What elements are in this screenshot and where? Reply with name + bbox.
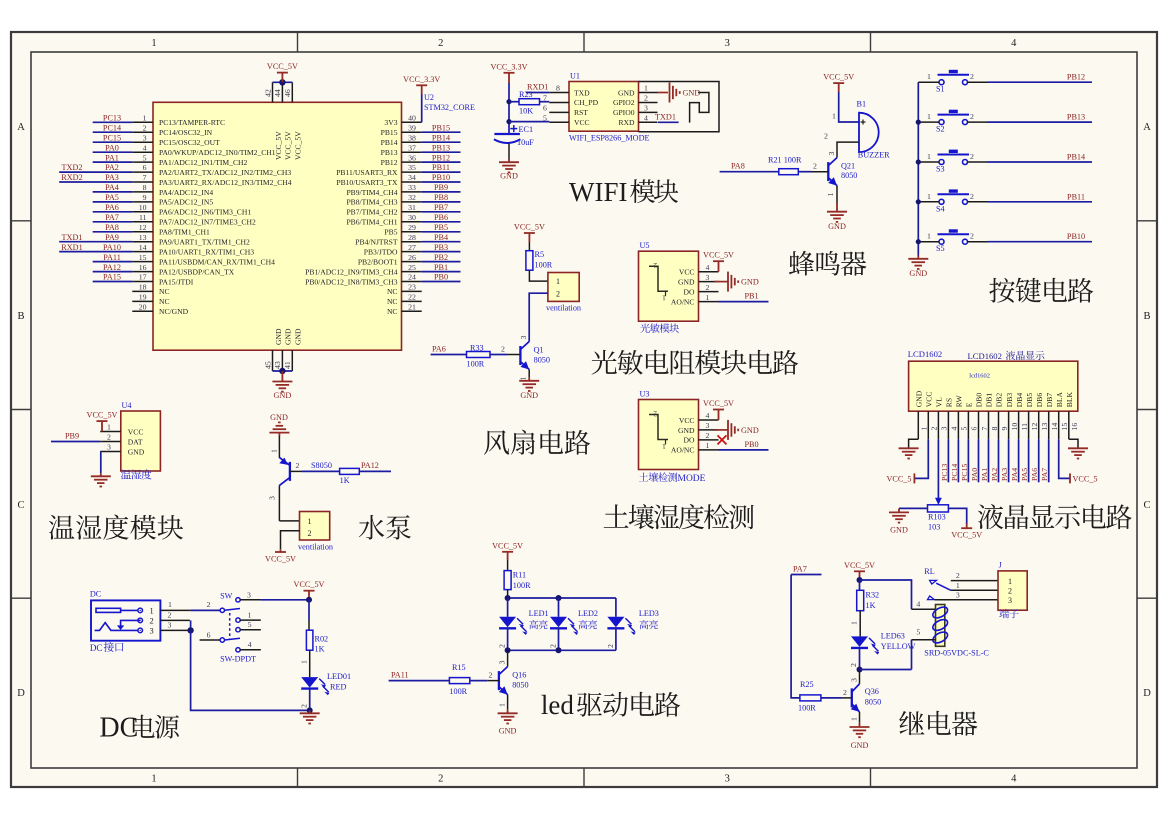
svg-text:PA7: PA7 <box>105 213 119 222</box>
svg-text:PC14: PC14 <box>103 123 121 132</box>
svg-text:DC: DC <box>99 713 138 744</box>
svg-text:2: 2 <box>653 410 657 419</box>
S1 pin wires <box>918 81 939 83</box>
wire net PC15 <box>93 141 133 143</box>
U5 pin 1 stub <box>699 301 719 303</box>
wire LED63 to junction <box>859 648 861 670</box>
title 液晶显示电路 <box>978 504 1132 529</box>
ground below Q21 <box>827 212 847 222</box>
svg-text:10uF: 10uF <box>517 138 534 147</box>
power port VCC_5V at U5 pin4 <box>718 261 720 272</box>
svg-text:100R: 100R <box>467 360 485 369</box>
U2 pin 35 stub <box>402 171 422 173</box>
U2 pin 37 stub <box>402 151 422 153</box>
LED63 <box>851 636 868 647</box>
svg-text:GND: GND <box>741 426 759 435</box>
svg-text:VCC_3.3V: VCC_3.3V <box>403 75 440 84</box>
svg-text:1: 1 <box>498 703 507 707</box>
wire net PB7 <box>422 211 461 213</box>
U2 pin 29 stub <box>402 231 422 233</box>
svg-text:RW: RW <box>955 395 964 408</box>
svg-text:3: 3 <box>725 38 730 49</box>
U1 pin 5 stub <box>549 121 569 123</box>
wire R02 to LED01 <box>309 650 311 677</box>
switch S4 <box>938 194 970 204</box>
U5 internal pin names <box>678 268 695 297</box>
svg-text:1: 1 <box>662 442 666 451</box>
svg-text:PA6/ADC12_IN6/TIM3_CH1: PA6/ADC12_IN6/TIM3_CH1 <box>159 208 251 217</box>
svg-text:3: 3 <box>247 591 251 600</box>
svg-text:3V3: 3V3 <box>384 118 397 127</box>
relay contact common lever <box>936 583 951 590</box>
U2 pin 38 stub <box>402 141 422 143</box>
svg-text:1: 1 <box>270 449 279 453</box>
svg-text:8: 8 <box>990 427 999 431</box>
svg-text:BLA: BLA <box>1055 391 1064 407</box>
U2 pin 16 stub <box>132 271 153 273</box>
junction S3 <box>916 159 921 164</box>
svg-text:100R: 100R <box>513 581 531 590</box>
svg-text:PA6: PA6 <box>1030 468 1039 481</box>
junction VCC DC <box>306 597 312 603</box>
U2 pin 7 stub <box>132 181 153 183</box>
U1 pin 8 stub <box>549 92 569 94</box>
S4 pin wires <box>918 201 939 203</box>
svg-text:GND: GND <box>915 390 924 407</box>
svg-text:8: 8 <box>143 183 147 192</box>
title 继电器 <box>899 711 977 736</box>
svg-text:PB11: PB11 <box>432 163 450 172</box>
ground below Q16 <box>498 713 518 723</box>
svg-text:EC1: EC1 <box>519 125 534 134</box>
svg-text:PC15: PC15 <box>960 464 969 481</box>
wire key common rail <box>917 82 919 255</box>
U5 photoresistor glyph <box>649 266 668 291</box>
svg-text:S1: S1 <box>936 85 945 94</box>
svg-text:PB9: PB9 <box>434 183 448 192</box>
svg-text:R32: R32 <box>866 591 880 600</box>
svg-text:34: 34 <box>408 173 416 182</box>
wire net PB11 <box>422 171 461 173</box>
svg-text:18: 18 <box>139 283 147 292</box>
svg-text:PA8: PA8 <box>731 162 745 171</box>
svg-text:2: 2 <box>1008 587 1012 596</box>
svg-text:GND: GND <box>499 727 517 736</box>
svg-text:PB9/TIM4_CH4: PB9/TIM4_CH4 <box>346 188 397 197</box>
svg-text:LCD1602: LCD1602 <box>968 351 1002 361</box>
wire net PB4 <box>422 241 461 243</box>
svg-text:26: 26 <box>408 253 416 262</box>
svg-text:PB6: PB6 <box>434 213 448 222</box>
wire rail to Q16 collector <box>507 650 509 666</box>
svg-text:17: 17 <box>139 273 147 282</box>
junction led2 bottom <box>556 647 562 653</box>
svg-text:DB6: DB6 <box>1035 393 1044 408</box>
wire S8050 base to resistor 1K <box>290 470 302 472</box>
svg-text:30: 30 <box>408 213 416 222</box>
svg-text:1: 1 <box>308 517 312 526</box>
svg-text:PA0/WKUP/ADC12_IN0/TIM2_CH1: PA0/WKUP/ADC12_IN0/TIM2_CH1 <box>159 148 276 157</box>
resistor R11 <box>504 571 511 590</box>
wire net PB12 <box>988 81 1093 83</box>
U2 pin 27 stub <box>402 251 422 253</box>
svg-text:NC: NC <box>387 297 398 306</box>
svg-text:2: 2 <box>970 112 974 121</box>
svg-text:1: 1 <box>151 774 156 785</box>
junction rail VCC pin <box>506 119 511 124</box>
svg-text:2: 2 <box>970 192 974 201</box>
svg-text:PB0: PB0 <box>745 440 759 449</box>
svg-text:1: 1 <box>826 193 835 197</box>
wire net PA7 <box>1048 439 1050 482</box>
svg-text:GND: GND <box>270 413 288 422</box>
svg-text:2: 2 <box>501 345 505 354</box>
svg-text:R02: R02 <box>315 635 329 644</box>
S5 pin wires <box>918 241 939 243</box>
U3 pin 1 stub <box>699 449 719 451</box>
svg-text:D: D <box>17 688 25 699</box>
resistor R21 <box>779 169 799 175</box>
wire R5 to ventilation pin1 <box>529 270 548 281</box>
wire net PB13 <box>988 121 1093 123</box>
svg-text:3: 3 <box>827 152 836 156</box>
U2 pin 40 3V3 wire to VCC_3.3V <box>421 94 423 122</box>
svg-text:A: A <box>1143 122 1151 133</box>
svg-text:NC/GND: NC/GND <box>159 307 189 316</box>
svg-text:PB13: PB13 <box>432 143 450 152</box>
svg-text:1: 1 <box>832 112 836 121</box>
wire top power bus <box>273 81 293 83</box>
wire R11 to led rail <box>507 590 509 598</box>
wire Q36 emitter to GND <box>859 712 861 723</box>
wire net PB0 at U3 pin1 <box>719 449 769 451</box>
svg-text:GND: GND <box>294 328 303 345</box>
svg-text:DAT: DAT <box>128 437 143 446</box>
svg-text:VCC_5V: VCC_5V <box>267 62 298 71</box>
svg-text:AO/NC: AO/NC <box>671 297 695 306</box>
junction led1 bottom <box>505 647 511 653</box>
svg-text:PA5/ADC12_IN5: PA5/ADC12_IN5 <box>159 198 213 207</box>
wire net PC14 <box>93 131 133 133</box>
ground at U5 pin3 <box>728 272 738 292</box>
svg-text:GND: GND <box>618 88 635 97</box>
svg-text:GND: GND <box>828 222 846 231</box>
svg-text:38: 38 <box>408 133 416 142</box>
svg-text:VCC: VCC <box>128 427 144 436</box>
svg-text:14: 14 <box>1050 423 1059 431</box>
svg-text:VCC_5V: VCC_5V <box>294 131 303 160</box>
svg-text:10K: 10K <box>519 107 533 116</box>
svg-text:3: 3 <box>706 421 710 430</box>
wire net PA5 <box>93 201 133 203</box>
title 按键电路 <box>989 278 1093 303</box>
svg-text:TXD1: TXD1 <box>655 112 676 121</box>
svg-text:MODE: MODE <box>678 474 706 484</box>
wire Q21 emitter to GND <box>836 186 838 203</box>
svg-text:2: 2 <box>813 162 817 171</box>
svg-text:42: 42 <box>263 89 272 97</box>
svg-text:PA8/TIM1_CH1: PA8/TIM1_CH1 <box>159 228 210 237</box>
wire LED1 anode <box>507 598 509 617</box>
op-amp U3 body <box>639 400 699 470</box>
svg-text:11: 11 <box>139 213 147 222</box>
LED01 <box>301 677 318 688</box>
svg-text:VCC: VCC <box>679 416 695 425</box>
wire net PA10 <box>59 251 132 253</box>
U2 pin 12 stub <box>132 231 153 233</box>
svg-text:C: C <box>1143 500 1150 511</box>
wire LED2 cathode <box>558 628 560 650</box>
wire VCC to R5 <box>528 233 530 242</box>
svg-text:PA9: PA9 <box>105 233 119 242</box>
switch S1 <box>938 75 970 85</box>
U5 pin 3 stub <box>699 281 719 283</box>
U5 pin 2 stub <box>699 291 719 293</box>
U2 pin 33 stub <box>402 191 422 193</box>
svg-text:23: 23 <box>408 283 416 292</box>
wire LED3 cathode <box>615 628 617 650</box>
svg-text:2: 2 <box>706 283 710 292</box>
svg-text:DC: DC <box>90 590 102 599</box>
svg-text:1: 1 <box>107 423 111 432</box>
U2 pin 28 stub <box>402 241 422 243</box>
svg-text:2: 2 <box>930 427 939 431</box>
svg-text:PA7: PA7 <box>1040 468 1049 481</box>
wire DC rail down to LED return <box>191 630 310 710</box>
svg-text:VCC_5: VCC_5 <box>1073 474 1098 483</box>
wire VCC to buzzer pin1 <box>838 83 840 92</box>
wire net PA3 <box>1008 439 1010 482</box>
svg-text:DB1: DB1 <box>985 393 994 408</box>
svg-text:5: 5 <box>248 620 252 629</box>
svg-text:B1: B1 <box>857 100 867 109</box>
U2 pin 30 stub <box>402 221 422 223</box>
wire R15 to Q16 base <box>470 680 487 682</box>
svg-text:WIFI: WIFI <box>569 177 627 207</box>
svg-text:1: 1 <box>920 427 929 431</box>
svg-text:PB1: PB1 <box>745 292 759 301</box>
U2 pin 23 stub <box>402 290 422 292</box>
svg-text:ventilation: ventilation <box>546 304 581 313</box>
svg-text:A: A <box>17 122 25 133</box>
svg-text:led: led <box>541 690 574 720</box>
connector DC jack body <box>91 600 160 640</box>
wire VCC to R11 <box>507 560 509 571</box>
junction LED01 gnd <box>307 707 313 713</box>
LED3 <box>607 617 624 628</box>
U3 photoresistor glyph <box>649 415 668 440</box>
svg-text:PA7/ADC12_IN7/TIME3_CH2: PA7/ADC12_IN7/TIME3_CH2 <box>159 218 256 227</box>
wire bottom ground bus <box>273 370 293 372</box>
svg-text:RST: RST <box>574 108 588 117</box>
svg-text:RXD2: RXD2 <box>61 173 82 182</box>
wire DC pin2 down <box>160 619 189 621</box>
svg-text:5: 5 <box>143 153 147 162</box>
svg-text:C: C <box>17 500 24 511</box>
U2 pin 21 stub <box>402 310 422 312</box>
svg-text:2: 2 <box>970 232 974 241</box>
potentiometer R103 <box>928 505 949 512</box>
svg-text:RS: RS <box>945 398 954 407</box>
svg-text:VCC_5V: VCC_5V <box>492 541 523 550</box>
svg-text:PA4/ADC12_IN4: PA4/ADC12_IN4 <box>159 188 213 197</box>
op-amp U5 body <box>639 251 699 321</box>
power port VCC_5V pump <box>280 549 282 552</box>
svg-text:2: 2 <box>849 663 858 667</box>
svg-text:PA8: PA8 <box>105 223 119 232</box>
svg-text:lcd1602: lcd1602 <box>969 373 990 380</box>
svg-text:VCC_5V: VCC_5V <box>294 580 325 589</box>
DC jack sleeve glyph <box>96 608 121 612</box>
svg-text:DB3: DB3 <box>1005 393 1014 408</box>
svg-text:PA5: PA5 <box>105 193 119 202</box>
svg-text:PA3: PA3 <box>1000 468 1009 481</box>
svg-text:S4: S4 <box>936 204 945 213</box>
svg-text:3: 3 <box>268 496 277 500</box>
U2 top power pins 42 44 46 <box>273 82 293 102</box>
svg-text:VCC_5V: VCC_5V <box>844 561 875 570</box>
svg-text:16: 16 <box>1070 423 1079 431</box>
svg-text:1K: 1K <box>340 476 350 485</box>
wire led top rail <box>508 597 616 599</box>
svg-text:3: 3 <box>143 133 147 142</box>
title 温湿度模块 <box>49 515 183 540</box>
ground below Q1 <box>519 381 539 391</box>
svg-text:VCC_5V: VCC_5V <box>703 251 734 260</box>
J label 端子 <box>999 609 1018 618</box>
svg-text:2: 2 <box>549 644 558 648</box>
svg-text:1: 1 <box>850 621 859 625</box>
svg-text:DC: DC <box>90 643 103 653</box>
svg-text:VCC_5V: VCC_5V <box>703 399 734 408</box>
svg-text:RL: RL <box>924 567 934 576</box>
wire relay pin1 to J <box>951 589 998 591</box>
svg-text:2: 2 <box>107 433 111 442</box>
wire RXD1 to U1 pin 8 <box>526 92 549 94</box>
U3 pin 2 stub <box>699 439 719 441</box>
connector J terminal body <box>998 571 1027 610</box>
svg-text:GND: GND <box>500 172 518 181</box>
svg-text:31: 31 <box>408 203 416 212</box>
svg-text:2: 2 <box>843 688 847 697</box>
svg-text:RED: RED <box>330 682 346 691</box>
svg-text:LCD1602: LCD1602 <box>908 349 942 359</box>
svg-text:PA4: PA4 <box>105 183 119 192</box>
svg-text:2: 2 <box>143 123 147 132</box>
wire ventilation pin2 to Q1 collector <box>529 293 548 341</box>
U4 pin 2 stub <box>100 441 121 443</box>
svg-text:PB15: PB15 <box>432 123 450 132</box>
op-amp U2 STM32_CORE body <box>153 102 402 350</box>
relay contact NO triangle <box>928 596 935 600</box>
svg-text:41: 41 <box>283 361 292 369</box>
svg-text:3: 3 <box>644 104 648 113</box>
wire net PC13 <box>947 439 949 482</box>
svg-text:33: 33 <box>408 183 416 192</box>
wire PB9 to U4 pin2 <box>51 441 100 443</box>
svg-text:PB11/USART3_RX: PB11/USART3_RX <box>336 168 398 177</box>
wire net PB1 <box>422 271 461 273</box>
svg-text:TXD: TXD <box>574 88 590 97</box>
svg-text:VCC_5: VCC_5 <box>886 474 911 483</box>
svg-text:RXD1: RXD1 <box>527 83 548 92</box>
svg-text:3: 3 <box>725 774 730 785</box>
svg-text:U4: U4 <box>122 401 132 410</box>
wire relay coil pin5 <box>911 640 913 670</box>
wire net PA15 <box>93 281 133 283</box>
svg-text:GND: GND <box>851 741 869 750</box>
svg-text:GND: GND <box>683 89 701 98</box>
svg-text:LED1: LED1 <box>529 609 549 618</box>
U2 pin 34 stub <box>402 181 422 183</box>
resistor R02 <box>306 630 313 650</box>
connector ventilation pump <box>300 512 330 541</box>
U4 pin 1 stub <box>100 431 121 433</box>
svg-text:BUZZER: BUZZER <box>858 150 890 159</box>
title 风扇电路 <box>484 430 590 455</box>
svg-text:PA2: PA2 <box>105 163 119 172</box>
svg-text:PA7: PA7 <box>793 565 807 574</box>
svg-text:1: 1 <box>248 610 252 619</box>
svg-text:2: 2 <box>498 644 507 648</box>
svg-text:2: 2 <box>970 152 974 161</box>
svg-text:PB12: PB12 <box>381 158 398 167</box>
U2 pin 26 stub <box>402 261 422 263</box>
svg-text:PB5: PB5 <box>434 223 448 232</box>
svg-text:DO: DO <box>684 436 695 445</box>
ground LCD pin1 <box>899 448 919 458</box>
svg-text:PA10/UART1_RX/TIM1_CH3: PA10/UART1_RX/TIM1_CH3 <box>159 247 254 256</box>
junction DC pin3 <box>187 627 193 633</box>
wire net PA1 <box>988 439 990 482</box>
svg-text:3: 3 <box>956 590 960 599</box>
U2 pin 17 stub <box>132 281 153 283</box>
wire LCD pin15 to VCC_5 right <box>1059 439 1070 478</box>
U4 label 温湿度 <box>121 469 152 479</box>
wire switch pin3 to VCC junction <box>260 599 309 601</box>
svg-text:8050: 8050 <box>512 681 528 690</box>
svg-text:GPIO0: GPIO0 <box>613 108 635 117</box>
svg-text:PC14/OSC32_IN: PC14/OSC32_IN <box>159 128 213 137</box>
wire 1K to PA12 <box>359 470 391 472</box>
svg-text:16: 16 <box>139 263 147 272</box>
svg-text:VCC_3.3V: VCC_3.3V <box>490 62 527 71</box>
U1 pin 2 stub <box>639 102 658 104</box>
U1 pin 1 stub <box>639 92 658 94</box>
svg-text:BLK: BLK <box>1065 391 1074 407</box>
svg-text:4: 4 <box>1011 774 1017 785</box>
svg-text:2: 2 <box>706 431 710 440</box>
U2 pin 18 stub <box>132 290 153 292</box>
svg-text:1: 1 <box>927 192 931 201</box>
U2 pin 22 stub <box>402 300 422 302</box>
U2 pin 32 stub <box>402 201 422 203</box>
svg-text:GND: GND <box>284 328 293 345</box>
svg-text:1: 1 <box>556 277 560 286</box>
wire net PB9 <box>422 191 461 193</box>
svg-text:19: 19 <box>139 293 147 302</box>
U3 pin 4 stub <box>699 419 719 421</box>
wire net PA2 <box>998 439 1000 482</box>
svg-text:SW: SW <box>220 591 233 600</box>
svg-text:PB7/TIM4_CH2: PB7/TIM4_CH2 <box>346 208 397 217</box>
U4 internal pin names <box>128 427 145 456</box>
svg-text:3: 3 <box>519 336 528 340</box>
svg-text:PA5: PA5 <box>1020 468 1029 481</box>
svg-text:GND: GND <box>274 328 283 345</box>
U2 pin 6 stub <box>132 171 153 173</box>
svg-text:NC: NC <box>387 287 398 296</box>
